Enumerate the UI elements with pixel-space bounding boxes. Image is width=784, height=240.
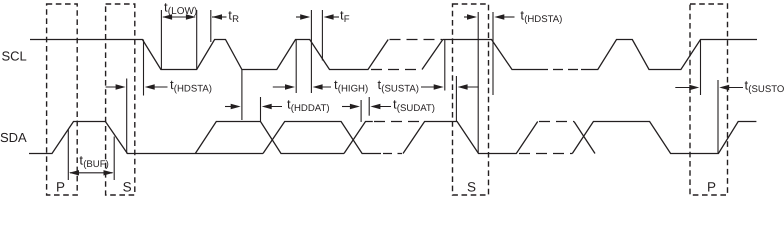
t(SUSTA) measurement bars and arrows xyxy=(444,40,446,91)
SDA waveform solid segment 2 xyxy=(403,122,538,154)
t(HDSTA) first measurement bars and arrows xyxy=(126,79,128,154)
SDA dashed high (data may be high) xyxy=(374,121,425,123)
SDA dashed low 2 xyxy=(519,153,572,155)
svg-text:SDA: SDA xyxy=(0,130,27,145)
svg-text:(BUF): (BUF) xyxy=(83,159,109,170)
svg-text:S: S xyxy=(467,180,476,195)
STOP P2 condition box (dashed) xyxy=(690,4,728,195)
svg-text:(LOW): (LOW) xyxy=(168,6,197,17)
svg-text:(SUDAT): (SUDAT) xyxy=(397,103,435,114)
tR measurement bar and arrow xyxy=(210,10,212,42)
SDA crossover rise 1 / bit trapezoid 2 xyxy=(263,122,381,154)
SCL waveform solid segment 2 xyxy=(422,40,548,70)
svg-text:(HDSTA): (HDSTA) xyxy=(524,14,562,25)
t(BUF) measurement bars and arrows xyxy=(67,130,69,181)
SCL dashed high (clock may be high) xyxy=(390,39,443,41)
SCL waveform solid segment 3 xyxy=(581,40,757,70)
svg-text:SCL: SCL xyxy=(2,49,27,64)
repeated START S2 condition box (dashed) xyxy=(453,4,489,195)
SDA crossover rise 2 stub high xyxy=(344,122,373,154)
svg-text:S: S xyxy=(123,180,132,195)
svg-text:(HDDAT): (HDDAT) xyxy=(291,103,330,114)
SDA crossover fall 3 xyxy=(574,122,595,154)
SDA dashed low (data may be low) xyxy=(383,153,402,155)
svg-text:(HIGH): (HIGH) xyxy=(338,84,368,95)
t(HIGH) measurement bars and arrows xyxy=(295,40,297,94)
svg-text:R: R xyxy=(232,14,239,25)
SDA waveform solid segment 1 (low rail continuous) xyxy=(29,122,263,154)
SCL waveform solid segment 1 xyxy=(30,40,388,70)
STOP P1 condition box (dashed) xyxy=(47,4,78,195)
SDA waveform solid segment 3 xyxy=(572,122,756,154)
svg-text:(SUSTA): (SUSTA) xyxy=(381,84,419,95)
SDA bit trapezoid 1 xyxy=(195,122,344,154)
SCL low time-break dashes xyxy=(553,69,563,71)
t(HDDAT) measurement bars and arrows xyxy=(241,70,243,121)
SDA dashed high 2 xyxy=(539,121,574,123)
SCL dashed low (clock may be low) xyxy=(371,69,421,71)
svg-text:(SUSTO): (SUSTO) xyxy=(748,84,784,95)
svg-text:P: P xyxy=(707,180,716,195)
t(LOW) measurement bars and arrows xyxy=(160,10,162,70)
t(HDSTA) repeated-start measurement bars and arrows xyxy=(477,12,479,154)
t(SUSTO) measurement bars and arrows xyxy=(700,40,702,96)
tF measurement bars and arrows xyxy=(321,10,323,61)
svg-text:F: F xyxy=(344,14,350,25)
svg-text:(HDSTA): (HDSTA) xyxy=(174,84,212,95)
START S1 condition box (dashed) xyxy=(106,4,135,195)
t(SUDAT) measurement bars and arrows xyxy=(360,100,362,122)
svg-text:P: P xyxy=(56,180,65,195)
